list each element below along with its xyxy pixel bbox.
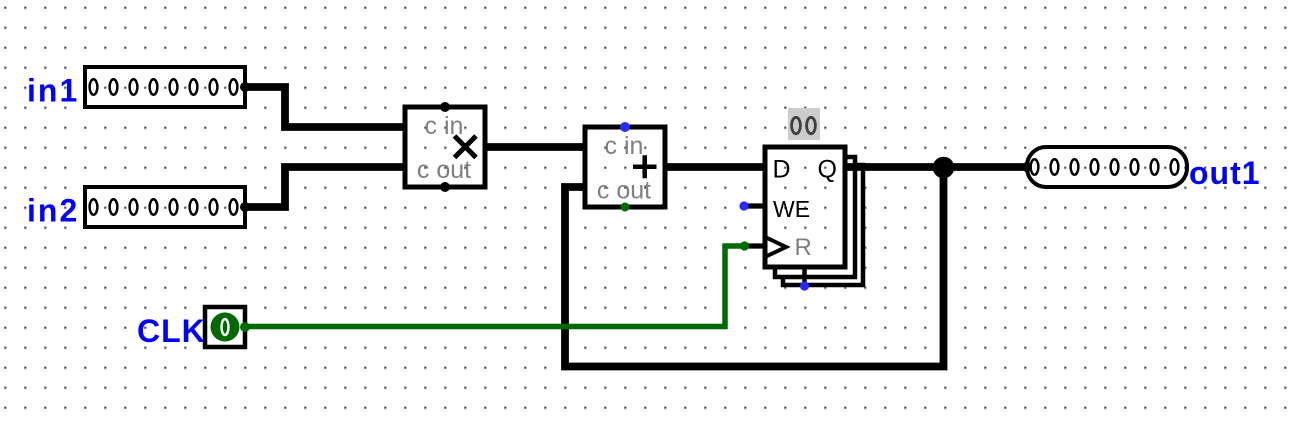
adder plus symbol (633, 155, 657, 178)
output pin out1 (1022, 147, 1187, 187)
wire in2 to multiplier (245, 167, 405, 207)
adder U2 (585, 127, 665, 207)
input pin CLK (205, 307, 250, 347)
junction node (933, 157, 955, 179)
svg-text:c out: c out (597, 177, 651, 205)
register U3 shadow rect 3 (783, 165, 863, 285)
adder carry-in pin dot (620, 122, 630, 132)
svg-text:CLK: CLK (137, 313, 206, 349)
adder carry-out pin dot (621, 203, 630, 212)
multiplier U1 (405, 107, 485, 187)
register clock triangle (765, 237, 786, 257)
register WE stub (744, 203, 765, 208)
clock wire CLK to register (245, 246, 745, 327)
wire register Q to out1 (845, 163, 1027, 171)
svg-text:out1: out1 (1189, 155, 1261, 191)
multiplier X symbol (455, 136, 477, 158)
svg-text:c in: c in (605, 132, 644, 160)
register U3 main box (765, 147, 845, 267)
wire multiplier to adder (485, 143, 585, 151)
svg-text:in2: in2 (27, 193, 79, 229)
svg-text:Q: Q (818, 156, 837, 184)
input pin in1 (85, 67, 250, 107)
svg-text:in1: in1 (27, 73, 79, 109)
register value label 00 (788, 108, 820, 140)
register WE pin dot (739, 201, 748, 210)
svg-text:c out: c out (417, 156, 471, 184)
register R pin dot (800, 281, 809, 290)
multiplier carry-in pin dot (440, 102, 450, 112)
svg-text:D: D (773, 156, 791, 184)
svg-text:R: R (795, 234, 812, 261)
register R stub (802, 267, 807, 285)
svg-text:WE: WE (773, 196, 810, 222)
clock wire endpoint dot (740, 241, 749, 250)
register U3 shadow rect 2 (775, 157, 855, 277)
wire in1 to multiplier (245, 87, 405, 127)
input pin in2 (85, 187, 250, 227)
register clock stub (745, 243, 765, 248)
wire adder to register D (665, 163, 765, 171)
multiplier carry-out pin dot (440, 182, 450, 192)
feedback wire Q to adder (565, 167, 944, 367)
